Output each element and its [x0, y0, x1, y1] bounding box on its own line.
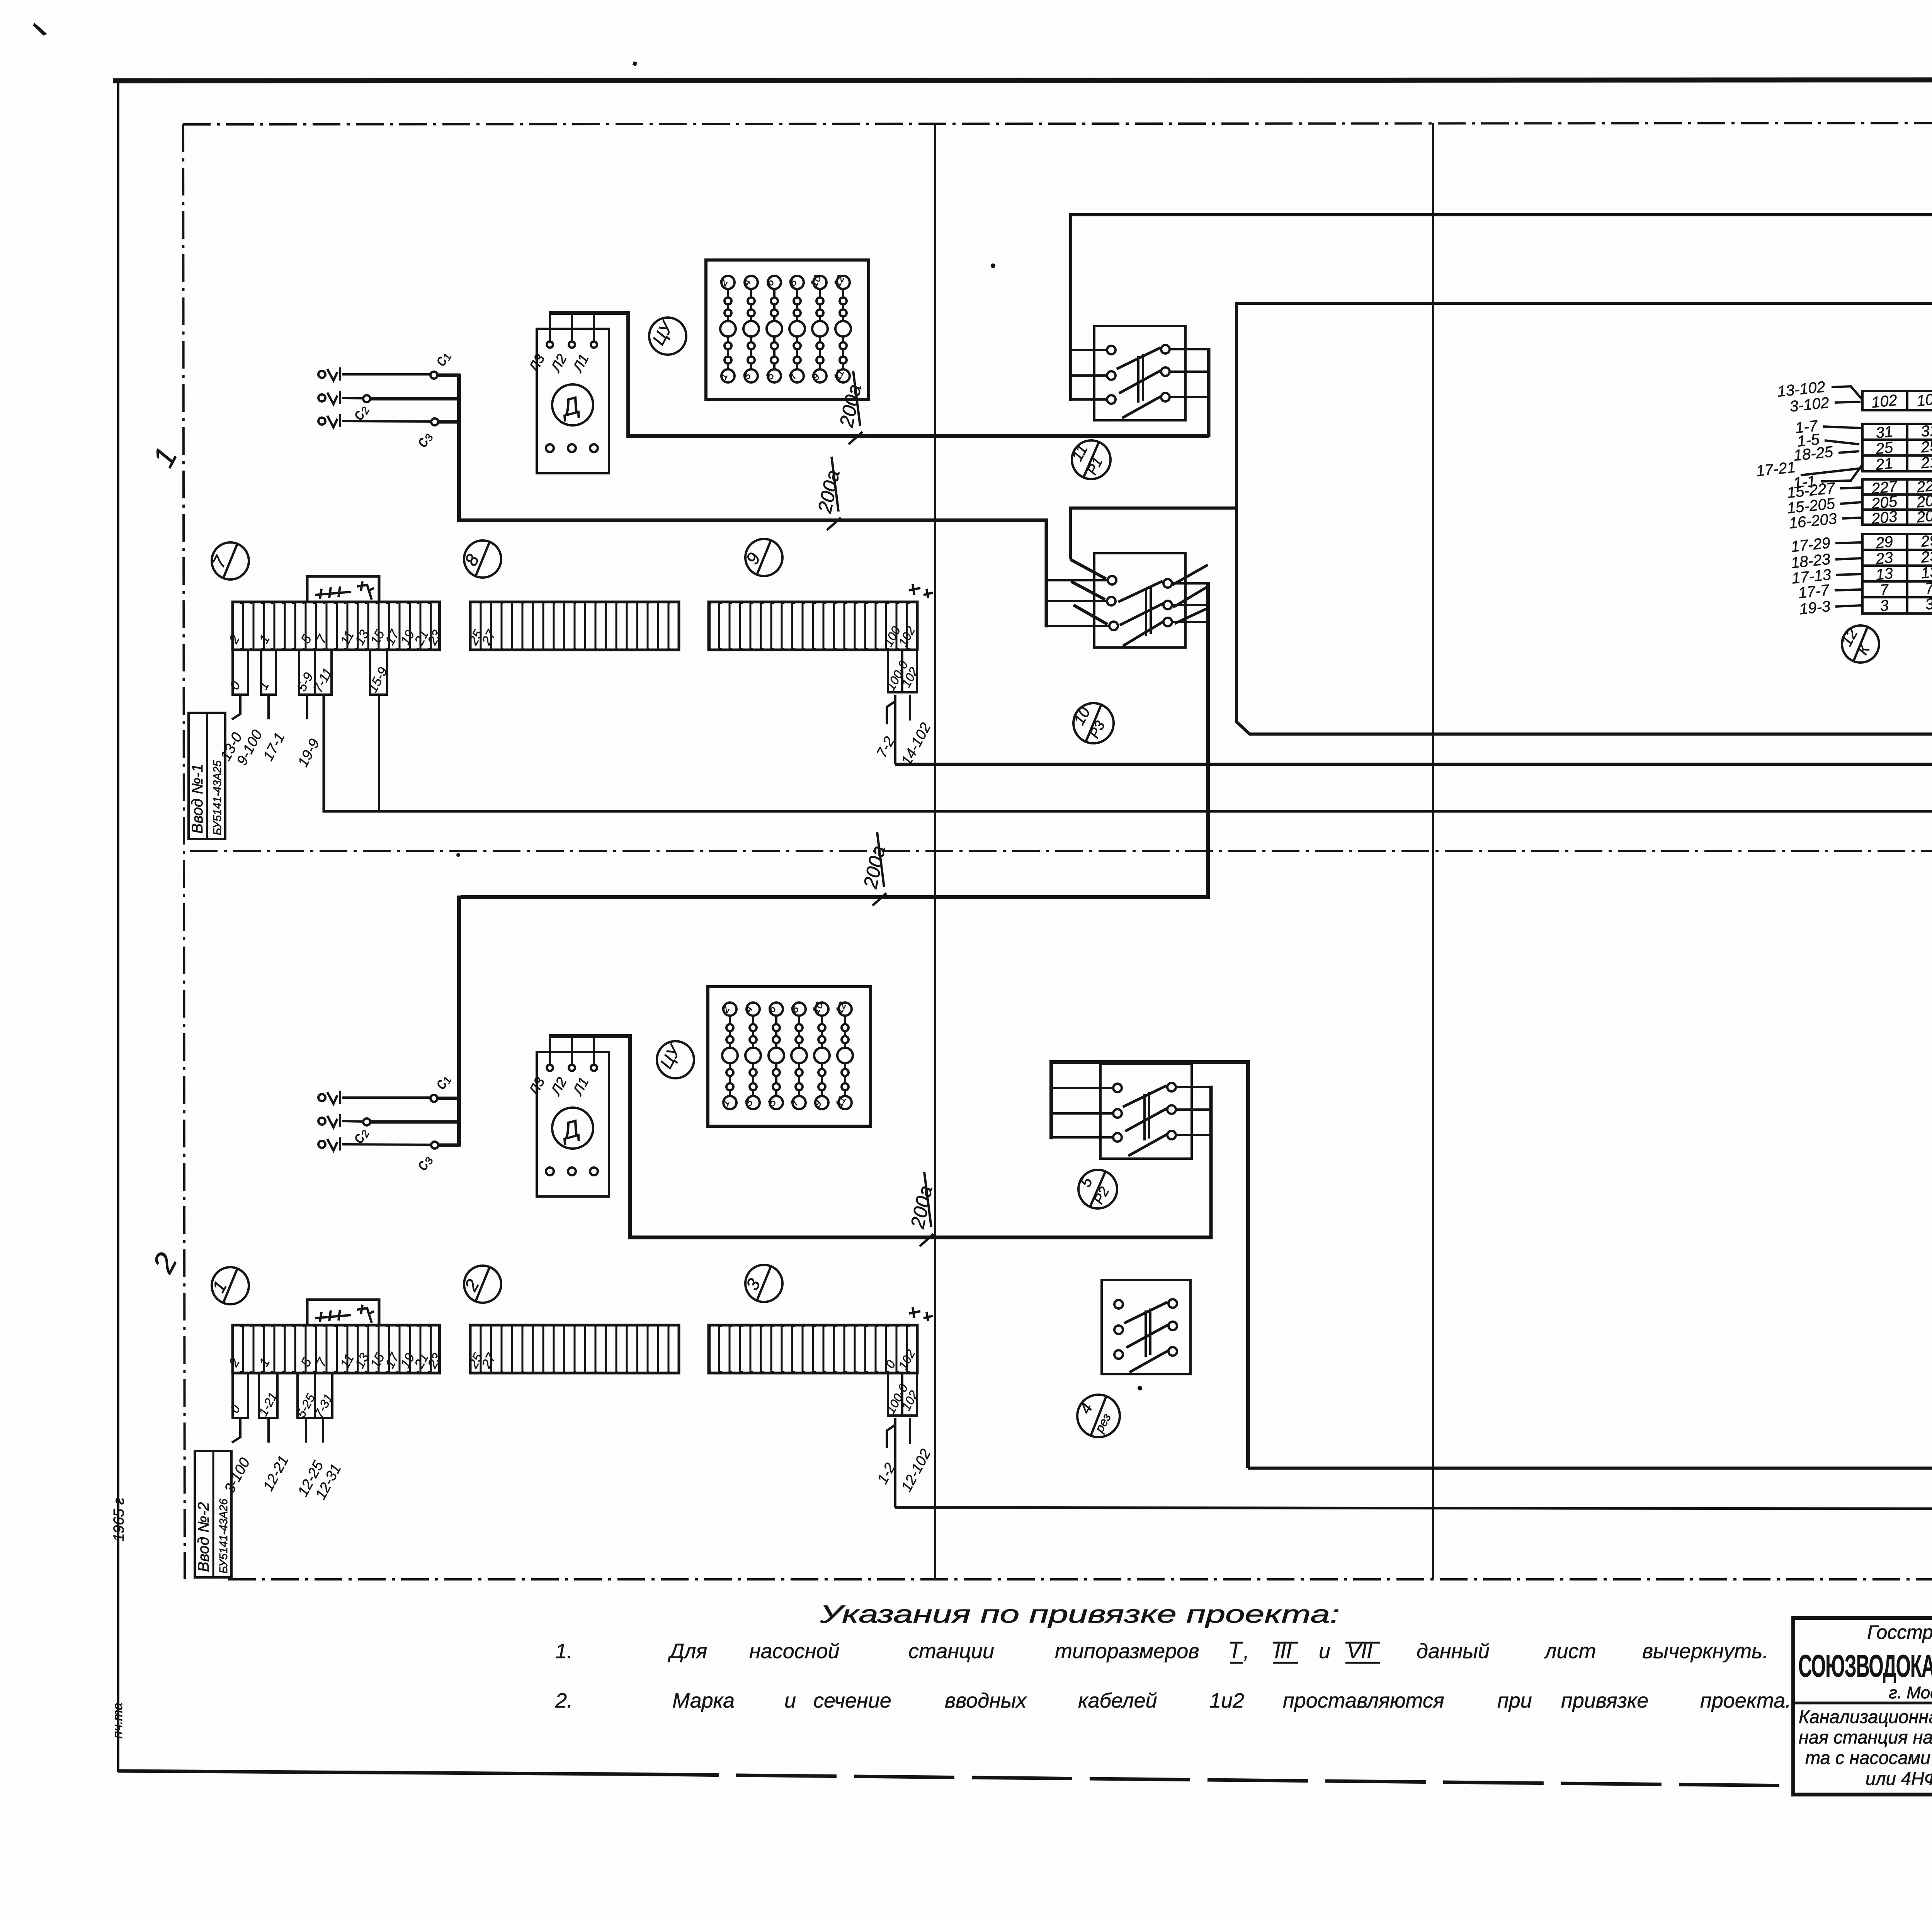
strip 9 cable tails to wire — [887, 695, 910, 764]
svg-text:проставляются: проставляются — [1283, 1689, 1444, 1712]
svg-text:23: 23 — [1920, 547, 1932, 566]
wire fuse4 to C1 — [342, 1096, 430, 1099]
svg-text:ная станция на 3 агрега-: ная станция на 3 агрега- — [1799, 1727, 1932, 1747]
jumper box above strip 1 — [307, 1300, 379, 1325]
svg-text:13: 13 — [1875, 565, 1894, 583]
wire fuse3 to C3 — [342, 421, 431, 421]
strip 7 cable tails — [232, 695, 307, 719]
crosses above strip 3 end — [909, 1307, 933, 1321]
wires D1 terminals up to bus — [550, 314, 594, 342]
wire fuse6 to C3 — [342, 1144, 431, 1145]
wire labels left of table — [1755, 378, 1838, 618]
svg-text:7: 7 — [1924, 580, 1932, 597]
svg-text:при: при — [1497, 1689, 1532, 1712]
svg-text:1и2: 1и2 — [1209, 1689, 1244, 1712]
instruction item 1 — [555, 1640, 1769, 1663]
ref circle 5/P2 — [1077, 1170, 1117, 1208]
svg-text:или 4НФ: или 4НФ — [1866, 1768, 1932, 1789]
node C1 — [430, 372, 437, 379]
svg-text:БУ5141-43А26: БУ5141-43А26 — [218, 1498, 230, 1574]
svg-text:Указания по привязке прое: Указания по привязке проекта: — [820, 1600, 1340, 1628]
demount feeder wires into 10/P3 left — [1070, 508, 1236, 624]
panel boundary dash-dot lines — [183, 123, 1932, 1579]
ref circle 10/P3 — [1071, 703, 1114, 743]
right side wires of 10/P3 — [1172, 565, 1208, 624]
svg-text:13: 13 — [1920, 563, 1932, 582]
wire from strip7 to panel3 (control cable) — [324, 695, 1932, 811]
switch 4/rez (reserve) — [1102, 1280, 1190, 1374]
200a label on D1 wire — [835, 371, 866, 444]
terminal strip 3 — [709, 1325, 918, 1373]
wire fuse5 to C2 — [342, 1121, 364, 1122]
5/P2 right bus down to D2 wire — [1209, 1086, 1213, 1239]
wire down to switch 10/P3 left bus — [1045, 519, 1048, 627]
switch 10/P3 (rubilnik) — [1046, 553, 1185, 647]
fuse F1 phase C1 — [318, 367, 340, 381]
motor device box D1 — [537, 329, 609, 473]
scan streak top-left margin — [33, 22, 47, 36]
block2 feed bus down from 10/P3 wire — [457, 896, 461, 1145]
terminal strip 1 — [226, 1325, 445, 1373]
wire fuse1 to C1 — [342, 373, 430, 376]
svg-text:лист: лист — [1544, 1640, 1596, 1663]
leader lines to table — [1801, 386, 1862, 607]
svg-text:БУ5141-43А25: БУ5141-43А25 — [211, 760, 224, 835]
svg-text:25: 25 — [1920, 437, 1932, 456]
title block frame — [1793, 1618, 1932, 1795]
svg-text:102: 102 — [1871, 392, 1898, 411]
svg-text:вычеркнуть.: вычеркнуть. — [1642, 1640, 1769, 1663]
svg-text:сечение: сечение — [813, 1689, 891, 1712]
wire panel2 riser: from wire3 corner down to wire4 corner — [1236, 303, 1932, 734]
svg-text:102: 102 — [1916, 390, 1932, 410]
table values — [1870, 390, 1932, 615]
switch 11/P1 (rubilnik) — [1071, 326, 1209, 437]
node C2 — [363, 395, 370, 402]
200a label on block2 feed wire — [859, 832, 889, 906]
svg-text:31: 31 — [1920, 421, 1932, 440]
wire C3 to bus — [438, 420, 461, 424]
instruction item 2 — [555, 1689, 1791, 1712]
5/P2 feed loop from Vvod2 — [1051, 1062, 1248, 1468]
wire D2 bus to switch 5/P2 right side (200a) — [549, 1036, 1213, 1237]
node C2 block2 — [363, 1118, 370, 1125]
wire C2 to bus — [370, 1120, 461, 1124]
wire C2 to bus — [370, 397, 461, 401]
svg-text:29: 29 — [1920, 532, 1932, 551]
fuse F3 phase C3 — [318, 414, 340, 427]
wire C1 to bus — [437, 374, 460, 377]
cable marker box Vvod N1 — [189, 713, 225, 839]
wires D2 terminals up to bus — [550, 1037, 594, 1065]
wire 10/P3 output down to block 2 — [461, 582, 1208, 897]
ref circle 1 (strip) — [208, 1267, 249, 1304]
svg-text:203: 203 — [1870, 508, 1898, 528]
svg-text:3: 3 — [1879, 597, 1889, 615]
wire C1 bus down and right (200a feeder) — [459, 374, 1048, 520]
svg-text:и: и — [1319, 1640, 1330, 1663]
svg-text:19-3: 19-3 — [1799, 598, 1831, 618]
terminal strip 2 — [466, 1325, 679, 1373]
ref circle 9 — [742, 539, 782, 576]
ref circle 2 (strip) — [460, 1266, 501, 1303]
wire C1 to bus — [437, 1097, 461, 1100]
svg-text:203: 203 — [1915, 506, 1932, 526]
wire Vvod1 from switch 11/P1 to right — [1071, 215, 1932, 401]
label CU2 circle — [657, 1041, 694, 1078]
strip 7 marked lower cells — [233, 650, 387, 695]
node C3 block2 — [431, 1142, 438, 1149]
svg-text:данный: данный — [1417, 1640, 1490, 1663]
ref circle 8 — [461, 540, 501, 578]
node C3 — [431, 418, 438, 425]
fuse F4 phase C1 — [318, 1091, 340, 1104]
svg-text:станции: станции — [908, 1640, 994, 1663]
strip 3 marked lower cells — [888, 1373, 917, 1416]
200a label on D2 wire — [906, 1172, 937, 1246]
svg-text:1965 г: 1965 г — [111, 1497, 127, 1541]
svg-text:та с насосами 2,5 НФ: та с насосами 2,5 НФ — [1805, 1747, 1932, 1768]
svg-text:СОЮЗВОДОКАНАЛПРОЕКТ: СОЮЗВОДОКАНАЛПРОЕКТ — [1798, 1648, 1932, 1684]
strip 3 cable tails to wire — [887, 1418, 910, 1507]
svg-text:Ввод №-2: Ввод №-2 — [195, 1502, 212, 1572]
terminal strip 7 — [226, 602, 445, 650]
strip 9 marked lower cells — [888, 650, 917, 692]
wire D1 bus to switch 11/P1 right side (200a) — [549, 313, 1209, 436]
strip 1 cable tails — [232, 1418, 323, 1443]
ref circle 12/K — [1838, 625, 1879, 663]
fuse F2 phase C2 — [318, 391, 340, 404]
ref circle 3 (strip) — [742, 1265, 782, 1302]
200a label on C1 wire — [814, 457, 844, 530]
svg-text:типоразмеров: типоразмеров — [1055, 1640, 1199, 1663]
wire Vvod2 to right — [1248, 1467, 1932, 1470]
svg-text:Канализационная-насос-: Канализационная-насос- — [1799, 1706, 1932, 1727]
svg-text:Марка: Марка — [672, 1689, 735, 1712]
ref circle 4/rez — [1076, 1395, 1120, 1437]
strip 1 marked lower cells — [233, 1373, 332, 1418]
svg-text:проекта.: проекта. — [1700, 1689, 1791, 1712]
svg-text:привязке: привязке — [1561, 1689, 1648, 1712]
cable marker box Vvod N2 — [195, 1451, 231, 1577]
jumper box above strip 7 — [307, 576, 379, 602]
lamp panel 2 — [708, 987, 871, 1126]
motor device box D2 — [537, 1052, 609, 1196]
wire strip3 to right (ends open) — [895, 1507, 1932, 1509]
ref circle 7 — [208, 542, 249, 580]
wire fuse2 to C2 — [342, 398, 364, 398]
svg-text:насосной: насосной — [749, 1640, 840, 1663]
fuse F5 phase C2 — [318, 1114, 340, 1127]
terminal strip 8 — [466, 602, 679, 650]
switch 5/P2 (rubilnik) — [1051, 1064, 1213, 1159]
svg-text:21: 21 — [1920, 453, 1932, 472]
svg-text:3: 3 — [1924, 595, 1932, 613]
svg-text:Госстрой СССР: Госстрой СССР — [1867, 1621, 1932, 1643]
fuse F6 phase C3 — [318, 1137, 340, 1151]
terminal strip 9 — [709, 602, 918, 650]
ref circle 11/P1 — [1068, 440, 1111, 479]
svg-text:Для: Для — [668, 1640, 707, 1663]
svg-text:2.: 2. — [555, 1689, 573, 1712]
lamp panel 1 — [706, 260, 869, 399]
svg-text:21: 21 — [1874, 455, 1894, 474]
label CU1 circle — [649, 318, 686, 355]
svg-text:вводных: вводных — [945, 1689, 1027, 1712]
wire from strip9 to right (ends open) — [895, 763, 1932, 766]
svg-text:Ввод №-1: Ввод №-1 — [189, 764, 206, 834]
crosses above strip 9 end — [909, 584, 933, 598]
svg-text:г. Москва: г. Москва — [1889, 1683, 1932, 1702]
terminal block 12/K table — [1862, 391, 1932, 614]
svg-text:кабелей: кабелей — [1078, 1689, 1157, 1712]
svg-text:и: и — [784, 1689, 796, 1712]
svg-text:пч.та: пч.та — [111, 1703, 125, 1739]
lamp numbers top row — [721, 276, 850, 382]
wire C3 to bus — [438, 1144, 461, 1147]
long thin vertical partition lines — [935, 82, 1932, 1581]
node C1 block2 — [430, 1095, 437, 1102]
scan specks — [456, 61, 1142, 1390]
svg-text:1.: 1. — [555, 1640, 573, 1663]
